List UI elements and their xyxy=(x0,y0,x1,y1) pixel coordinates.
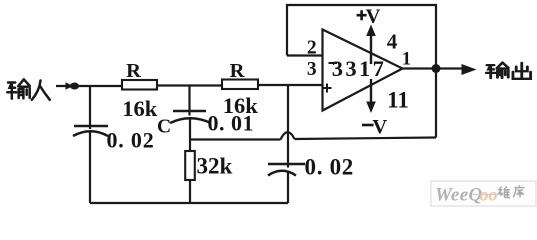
resistor R2 body xyxy=(222,80,258,90)
wire feedback box: left edge, top, right edge xyxy=(287,5,436,138)
svg-text:0. 02: 0. 02 xyxy=(305,155,355,180)
svg-text:0. 02: 0. 02 xyxy=(107,128,155,153)
wire crossover hop xyxy=(281,132,295,139)
label +V xyxy=(357,10,367,20)
wire R2 to op-amp pin 3 xyxy=(258,84,323,86)
resistor R1 body xyxy=(122,80,157,90)
capacitor 0.02 left: curved plate xyxy=(73,131,108,136)
capacitor C 0.01: curved plate xyxy=(170,118,211,123)
svg-text:R: R xyxy=(230,60,245,82)
wire input horizontal xyxy=(56,85,122,87)
watermark box xyxy=(431,181,536,206)
resistor 32k body xyxy=(185,151,195,180)
svg-text:V: V xyxy=(372,116,387,138)
input arrowhead xyxy=(66,82,74,89)
wire op-amp output xyxy=(403,67,463,69)
wire feedback line right of hop xyxy=(295,138,437,140)
watermark 维 glyph xyxy=(499,187,510,198)
svg-text:0. 01: 0. 01 xyxy=(208,111,255,136)
wire node A vertical drop xyxy=(89,86,91,129)
watermark 库 glyph xyxy=(513,185,524,197)
svg-text:R: R xyxy=(126,60,141,82)
label 输入 (input) xyxy=(7,79,50,99)
capacitor 0.02 right: top plate with leader dash xyxy=(268,163,305,165)
wire node A below cap to ground xyxy=(89,131,91,203)
wire node B cap to node D xyxy=(189,118,191,151)
wire feedback line left of hop xyxy=(190,138,281,140)
watermark Q tail strike xyxy=(473,194,504,196)
svg-text:4: 4 xyxy=(387,30,398,54)
wire node at x288 down to right cap xyxy=(287,85,289,168)
wire right cap bottom to ground xyxy=(287,172,289,204)
svg-text:3: 3 xyxy=(307,59,317,80)
capacitor 0.02 left: top plate xyxy=(74,125,108,128)
wire R1 to node B xyxy=(157,84,222,86)
label 输出 (output) xyxy=(486,63,530,79)
+V supply arrow xyxy=(370,34,372,64)
output junction dot xyxy=(432,64,441,73)
svg-text:3317: 3317 xyxy=(332,56,387,81)
svg-text:11: 11 xyxy=(387,88,409,113)
svg-text:2: 2 xyxy=(307,38,317,59)
capacitor C 0.01: top plate xyxy=(173,110,206,113)
wire op-amp pin 2 xyxy=(287,54,323,56)
svg-text:16k: 16k xyxy=(122,96,158,121)
label -V xyxy=(362,124,374,127)
svg-text:V: V xyxy=(366,6,381,28)
capacitor 0.02 right: curved plate xyxy=(268,171,296,176)
input junction dot xyxy=(70,83,79,90)
wire ground bottom line xyxy=(90,202,288,204)
output arrowhead xyxy=(462,64,477,75)
op-amp plus sign pin3 xyxy=(323,84,332,93)
wire node B vertical drop xyxy=(188,85,190,116)
svg-text:32k: 32k xyxy=(197,154,233,179)
svg-text:1: 1 xyxy=(402,50,411,70)
-V supply arrow xyxy=(370,79,372,103)
wire 32k bottom to ground xyxy=(189,180,191,203)
op-amp U1 triangle xyxy=(323,30,403,111)
op-amp minus sign pin2 xyxy=(329,62,338,64)
svg-text:C: C xyxy=(157,117,171,138)
